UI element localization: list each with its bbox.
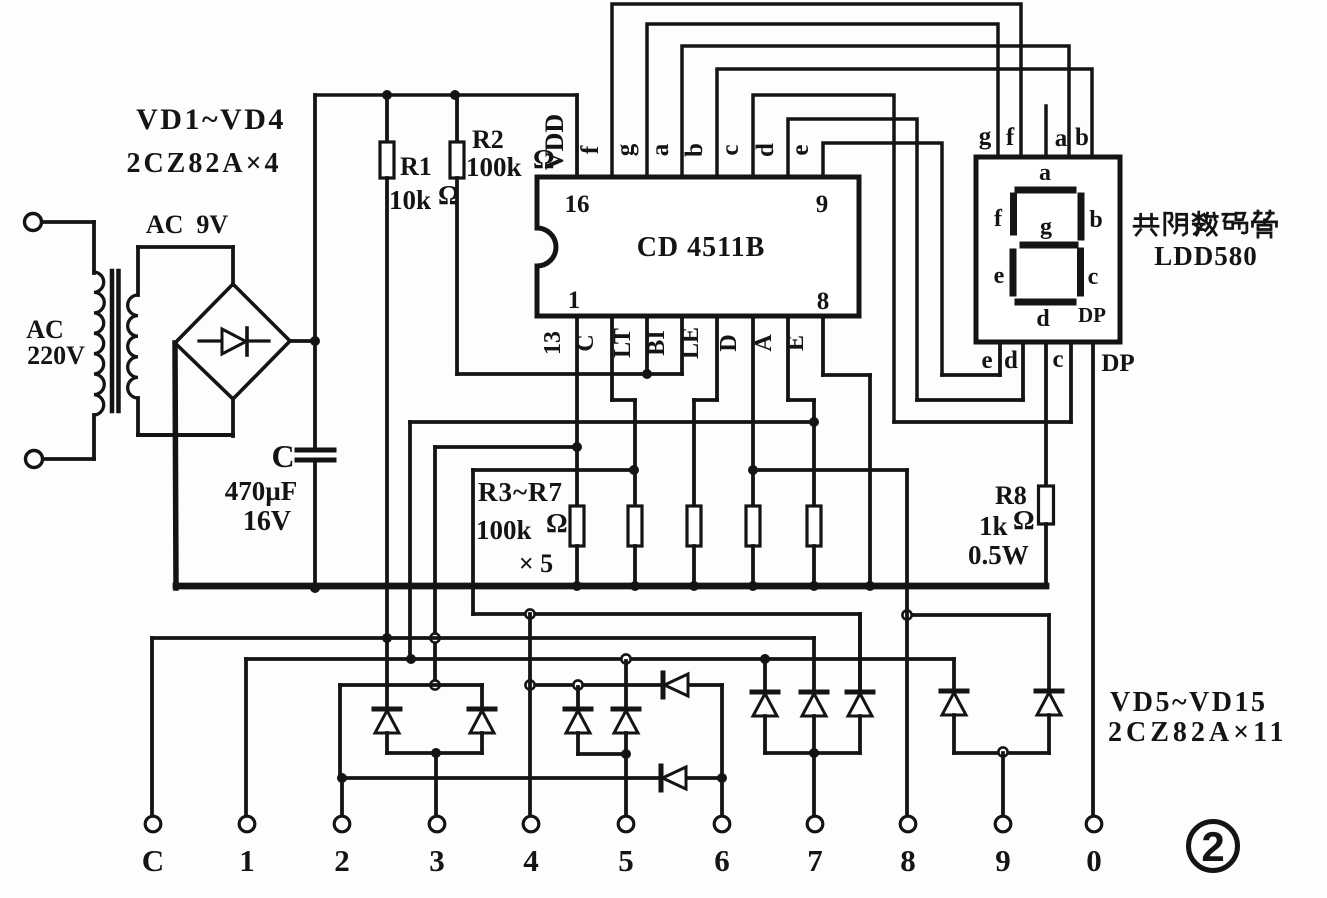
svg-text:LDD580: LDD580 <box>1154 241 1258 271</box>
svg-text:d: d <box>1036 306 1050 332</box>
svg-text:8: 8 <box>817 288 830 315</box>
svg-text:C: C <box>573 334 599 351</box>
svg-text:b: b <box>1075 124 1089 151</box>
svg-text:c: c <box>1088 264 1099 290</box>
svg-text:BI: BI <box>644 330 670 355</box>
svg-text:1k: 1k <box>979 511 1008 541</box>
svg-text:4: 4 <box>523 843 539 878</box>
svg-text:16: 16 <box>565 191 590 218</box>
svg-text:a: a <box>647 143 674 156</box>
svg-text:R1: R1 <box>400 152 432 181</box>
svg-text:100k: 100k <box>476 515 532 545</box>
svg-text:VD1~VD4: VD1~VD4 <box>136 103 286 136</box>
svg-text:9: 9 <box>816 191 829 218</box>
svg-text:VD5~VD15: VD5~VD15 <box>1110 687 1267 718</box>
svg-text:AC: AC <box>26 315 64 344</box>
svg-text:0: 0 <box>1086 843 1102 878</box>
svg-text:e: e <box>787 144 814 155</box>
svg-text:VDD: VDD <box>540 114 569 170</box>
svg-text:2: 2 <box>1201 823 1224 870</box>
svg-text:E: E <box>783 335 809 351</box>
svg-text:6: 6 <box>714 843 730 878</box>
svg-text:A: A <box>751 334 777 352</box>
svg-text:f: f <box>1006 124 1015 151</box>
svg-text:b: b <box>681 143 708 157</box>
svg-text:× 5: × 5 <box>519 549 553 578</box>
svg-text:2CZ82A×4: 2CZ82A×4 <box>126 148 281 179</box>
svg-text:10k: 10k <box>389 185 431 215</box>
svg-text:b: b <box>1089 207 1102 233</box>
svg-text:e: e <box>994 263 1005 289</box>
svg-text:AC 9V: AC 9V <box>146 210 229 239</box>
svg-text:5: 5 <box>618 843 634 878</box>
svg-text:D: D <box>716 334 742 351</box>
svg-text:f: f <box>577 145 604 154</box>
svg-text:R3~R7: R3~R7 <box>478 477 563 507</box>
svg-text:7: 7 <box>807 843 823 878</box>
svg-text:13: 13 <box>540 331 566 355</box>
svg-text:Ω: Ω <box>1013 505 1035 535</box>
svg-text:a: a <box>1055 125 1068 152</box>
svg-text:2CZ82A×11: 2CZ82A×11 <box>1108 717 1288 748</box>
svg-text:g: g <box>1040 214 1052 240</box>
svg-text:8: 8 <box>900 843 916 878</box>
svg-text:0.5W: 0.5W <box>968 540 1029 570</box>
svg-text:d: d <box>752 143 779 157</box>
svg-text:e: e <box>981 347 992 374</box>
svg-text:DP: DP <box>1101 350 1134 377</box>
svg-text:1: 1 <box>239 843 255 878</box>
svg-text:DP: DP <box>1078 303 1106 327</box>
svg-text:C: C <box>271 438 294 474</box>
svg-text:16V: 16V <box>243 506 291 537</box>
svg-text:f: f <box>994 206 1003 232</box>
svg-text:220V: 220V <box>27 341 85 370</box>
svg-text:R2: R2 <box>472 125 504 154</box>
svg-text:CD 4511B: CD 4511B <box>637 232 766 263</box>
svg-text:Ω: Ω <box>438 180 460 210</box>
svg-text:c: c <box>717 144 744 155</box>
svg-text:1: 1 <box>568 287 581 314</box>
svg-text:LE: LE <box>678 327 704 359</box>
svg-text:C: C <box>142 843 164 878</box>
svg-text:a: a <box>1039 160 1051 186</box>
svg-text:9: 9 <box>995 843 1011 878</box>
svg-text:LT: LT <box>610 328 636 358</box>
svg-text:g: g <box>612 143 639 156</box>
svg-text:3: 3 <box>429 843 445 878</box>
svg-text:d: d <box>1004 347 1018 374</box>
svg-text:2: 2 <box>334 843 350 878</box>
svg-text:c: c <box>1052 346 1063 373</box>
svg-text:Ω: Ω <box>546 508 568 538</box>
svg-text:100k: 100k <box>466 152 522 182</box>
svg-text:g: g <box>979 123 992 150</box>
svg-text:470µF: 470µF <box>225 476 298 506</box>
